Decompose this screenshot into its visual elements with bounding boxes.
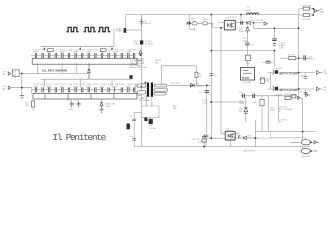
wire: control mid rail <box>211 51 274 67</box>
label R8 <box>191 19 195 23</box>
wire: aux hook <box>190 23 195 30</box>
label U2 <box>227 17 238 19</box>
wire: drop from top rail to C12 <box>240 15 242 21</box>
pulse train group 3 <box>98 27 110 31</box>
resistor R13 vertical <box>260 78 270 83</box>
diode D3 bias <box>149 118 157 130</box>
secondary winding capsule 3 <box>154 92 166 95</box>
bus bar row 1 <box>32 58 137 64</box>
fork to R25/C16 <box>299 9 313 15</box>
wire: aux link <box>190 23 225 28</box>
connector out arrow lower <box>314 141 319 151</box>
label R6 <box>155 60 163 64</box>
junction feedback rail <box>211 101 213 103</box>
capacitor bank row 2 <box>35 87 135 92</box>
varistor RV1 on V2 <box>134 40 154 45</box>
wire: Q2 row <box>268 88 315 90</box>
svg-text:C 2n2: C 2n2 <box>40 49 46 51</box>
resistor R14 sense <box>288 55 296 60</box>
svg-text:2W: 2W <box>155 62 158 64</box>
wire: dashed link right <box>250 132 271 139</box>
svg-text:C 2n2: C 2n2 <box>106 49 112 51</box>
connector aux2 arrow <box>298 96 301 99</box>
fusible resistor R8 oval <box>192 22 197 25</box>
wire: tick right of J3 <box>127 29 130 31</box>
wire: J1 feed <box>19 73 88 75</box>
wire: drop from top rail <box>189 15 191 24</box>
diode D10 <box>187 22 190 25</box>
fuse F1 box <box>13 70 20 77</box>
label R17 <box>281 42 286 46</box>
svg-text:24V: 24V <box>320 12 324 14</box>
svg-text:C 2n2: C 2n2 <box>53 84 59 86</box>
resistor R21 <box>284 94 292 99</box>
wire: U4 bottom pin <box>230 140 232 147</box>
fusible resistor R9 oval <box>202 22 207 25</box>
label C6 voltage <box>203 100 207 104</box>
wire: drops row1 to input rail <box>38 63 77 73</box>
resistor R4 below row2 <box>26 99 35 111</box>
svg-text:100V: 100V <box>60 86 65 88</box>
label R16 <box>239 101 244 105</box>
capacitor C19 sense <box>304 55 315 61</box>
svg-text:100V: 100V <box>100 86 105 88</box>
wire: feedback cross rail <box>211 101 246 103</box>
svg-text:1kV: 1kV <box>203 103 207 105</box>
wire: link ticks 2 <box>96 29 98 31</box>
junction dots upper bus <box>44 48 113 49</box>
capacitor C6 on rectifier leg <box>198 91 209 94</box>
connector P1 blob <box>127 124 132 130</box>
resistor R25 <box>302 5 311 10</box>
svg-text:C 2n2: C 2n2 <box>119 49 125 51</box>
svg-text:1M: 1M <box>26 105 29 107</box>
electrolytic C25 oval <box>301 148 311 158</box>
svg-text:100V: 100V <box>73 52 78 54</box>
arrow marker above U1 text <box>139 51 142 55</box>
wire: row1 rect to V2 <box>137 60 141 62</box>
svg-text:Q1 R18: Q1 R18 <box>275 68 283 70</box>
capacitor C10 out <box>239 92 244 98</box>
connector aux arrow <box>306 93 311 96</box>
diode D12 <box>243 135 260 139</box>
labels row 2 <box>33 84 137 88</box>
output rail 1 <box>255 131 316 133</box>
capacitor C5 on bus A <box>209 74 217 78</box>
opto U4 <box>225 131 235 140</box>
wire: row 1 top bus <box>31 54 136 56</box>
svg-text:100V: 100V <box>47 86 52 88</box>
junction bus A end <box>211 137 213 139</box>
svg-text:100V: 100V <box>73 86 78 88</box>
svg-text:Y1 250V: Y1 250V <box>145 43 154 45</box>
junction dots aux rail <box>220 27 222 29</box>
capacitor C10 pair <box>262 61 273 63</box>
zener VR2 <box>243 25 250 43</box>
wire: Q1 row <box>268 72 315 74</box>
label J3 PULSE <box>116 27 124 32</box>
wire: V1 drop from rail to pulse input <box>126 15 142 34</box>
capacitor C11 on ground rail <box>192 134 207 147</box>
resistor R12 <box>245 55 250 65</box>
capacitor C1 <box>140 19 152 27</box>
capacitor C16 <box>302 14 312 21</box>
diode D2 drop <box>88 63 91 79</box>
wire: drop to ground <box>21 88 23 96</box>
connector J3 blob <box>124 28 126 33</box>
svg-text:100V: 100V <box>47 52 52 54</box>
wire: row1 upper feed bus <box>41 30 114 49</box>
svg-text:R21 10: R21 10 <box>284 94 292 96</box>
wire: dashed lead to connector J3 <box>111 29 116 31</box>
label J1 <box>3 71 8 75</box>
svg-text:C 2n2: C 2n2 <box>40 84 46 86</box>
capacitor Cgs1 <box>304 73 308 79</box>
svg-text:LL4148: LL4148 <box>149 128 157 130</box>
wire: secondary top rail <box>168 84 190 86</box>
wire: J1 to J2 link <box>21 74 23 88</box>
svg-text:R9 10: R9 10 <box>203 19 209 21</box>
svg-text:C 2n2: C 2n2 <box>67 84 73 86</box>
junction top rail <box>240 14 242 16</box>
resistor R2 row1 <box>48 49 54 52</box>
svg-text:24V: 24V <box>324 73 328 75</box>
resistor R19 <box>275 94 296 98</box>
capacitor bank row 1 <box>35 53 135 58</box>
connector J1 plug <box>8 72 11 75</box>
svg-text:100V: 100V <box>86 86 91 88</box>
wire: top primary rail <box>126 14 299 16</box>
svg-text:C 2n2: C 2n2 <box>93 84 99 86</box>
wire: mid return rail <box>41 79 130 87</box>
wire: opto row <box>206 133 239 138</box>
capacitor C13 <box>272 28 284 49</box>
svg-text:C16 100n: C16 100n <box>302 18 312 20</box>
svg-text:275V: 275V <box>134 43 139 45</box>
wire: secondary vertical <box>194 85 211 134</box>
label T1 <box>139 98 152 102</box>
text block lower right <box>278 107 292 114</box>
vertical feedback bus A <box>210 15 212 139</box>
junction dots elcaps <box>310 142 312 144</box>
capacitor C23 <box>238 135 242 139</box>
svg-text:C11 2n2: C11 2n2 <box>192 139 201 141</box>
pulse train group 1 <box>66 27 78 31</box>
primary winding capsule upper <box>137 84 146 87</box>
svg-text:100n X2: 100n X2 <box>143 23 152 25</box>
svg-text:C25 470u: C25 470u <box>301 156 311 158</box>
label R10 <box>173 106 178 110</box>
transformer T1 <box>145 82 153 97</box>
svg-text:GND RTN 0V: GND RTN 0V <box>243 150 256 152</box>
label U4 <box>226 128 233 132</box>
IC U3 TL431 <box>241 67 255 84</box>
connector 0V OUT <box>300 86 327 94</box>
connector +V top arrow <box>314 9 319 12</box>
svg-text:100V: 100V <box>100 52 105 54</box>
output rail 2 <box>270 137 303 139</box>
svg-text:C 2n2: C 2n2 <box>80 49 86 51</box>
inductor L2 on top rail <box>245 7 259 14</box>
svg-text:R25 6.8M: R25 6.8M <box>302 5 311 7</box>
svg-text:35V: 35V <box>278 122 282 124</box>
junction right bus Q2 <box>298 88 300 90</box>
svg-text:D15 LL4148: D15 LL4148 <box>252 20 264 22</box>
current sense row <box>280 57 310 59</box>
wire: lower right vertical <box>277 95 279 121</box>
resistor R7 <box>195 72 203 78</box>
svg-text:600V: 600V <box>106 106 111 108</box>
diode D4 with ground <box>99 99 115 112</box>
bus bar row 2 <box>33 94 137 100</box>
resistor R20 <box>253 99 264 106</box>
wire: lower mid verticals <box>246 96 268 132</box>
text block U1 notes <box>130 58 148 69</box>
wire: J2 feed <box>11 88 32 94</box>
svg-text:AC: AC <box>3 87 6 90</box>
label C21b <box>278 119 288 123</box>
svg-text:LL4148 C12: LL4148 C12 <box>248 138 260 140</box>
capacitor C22 polarized <box>198 133 209 146</box>
wire: V bus right lower <box>254 120 256 147</box>
svg-text:NDT F1T7C0PF: NDT F1T7C0PF <box>280 71 299 75</box>
secondary winding capsule 1 <box>154 84 167 87</box>
capacitor C17 <box>245 43 255 46</box>
svg-text:C 2n2: C 2n2 <box>106 84 112 86</box>
junction control rail <box>211 50 213 52</box>
svg-text:C22 10u: C22 10u <box>198 142 207 144</box>
test point arrow TP1 <box>264 22 267 25</box>
label J2 <box>3 86 8 90</box>
MOSFET Q1 <box>273 69 298 75</box>
svg-text:C9 1n 1kV: C9 1n 1kV <box>170 83 180 85</box>
secondary winding capsule 2 <box>154 89 168 92</box>
svg-text:100V: 100V <box>113 52 118 54</box>
capacitor C15 <box>235 21 247 33</box>
svg-text:100R: 100R <box>270 110 275 112</box>
long right bus <box>298 15 300 100</box>
svg-text:PC817: PC817 <box>231 17 238 19</box>
primary winding capsule lower <box>137 91 146 94</box>
wire: post-filter rail <box>241 95 297 97</box>
svg-text:AC: AC <box>3 73 6 76</box>
wire: transformer primary pins <box>141 83 147 106</box>
svg-text:U3 TL431: U3 TL431 <box>242 82 252 84</box>
capacitor C7 bias <box>130 113 136 147</box>
zener VR3 <box>238 108 247 114</box>
wire: U3 supply <box>246 34 248 66</box>
svg-text:100V: 100V <box>86 52 91 54</box>
svg-text:ALL 2N7S 2N63-NW: ALL 2N7S 2N63-NW <box>42 69 68 73</box>
svg-text:C 2n2: C 2n2 <box>80 84 86 86</box>
svg-text:NDT F1T7C0PF: NDT F1T7C0PF <box>280 88 299 92</box>
svg-text:LINE IN: LINE IN <box>116 31 124 33</box>
diode D15 <box>247 20 264 24</box>
diode D1 <box>190 83 203 87</box>
svg-text:EPCOS N87: EPCOS N87 <box>139 100 152 102</box>
svg-text:BA159: BA159 <box>196 85 203 88</box>
svg-text:100V: 100V <box>33 86 38 88</box>
svg-text:TL431: TL431 <box>242 76 250 80</box>
label R22 <box>270 107 275 111</box>
svg-text:Clamp: RCD 150V: Clamp: RCD 150V <box>130 67 148 69</box>
clamp loop wire <box>161 66 196 86</box>
wire: bias loop <box>141 97 159 118</box>
svg-text:100V: 100V <box>60 52 65 54</box>
svg-text:Il Penitente: Il Penitente <box>53 132 107 143</box>
connector J2 plug <box>8 86 11 89</box>
label R9 <box>203 19 209 21</box>
svg-text:C 2n2: C 2n2 <box>67 49 73 51</box>
opto U2 <box>224 20 235 30</box>
svg-text:1n 1kV: 1n 1kV <box>308 59 315 61</box>
wire: left bias vertical join <box>134 112 141 114</box>
svg-text:100V: 100V <box>126 52 131 54</box>
wire: elcap junctions <box>290 98 314 151</box>
capacitor Cgs2 <box>304 89 308 95</box>
MOSFET Q2 <box>273 86 298 92</box>
wire: link ticks 1 <box>80 29 83 31</box>
junction dot J1 <box>21 73 23 75</box>
labels row 1 <box>33 49 137 53</box>
svg-text:C 2n2: C 2n2 <box>53 49 59 51</box>
svg-text:3.3mH: 3.3mH <box>245 10 252 12</box>
wire: V2 main primary vertical <box>140 15 142 147</box>
junction right bus Q1 <box>298 72 300 74</box>
junction J2 <box>21 87 23 89</box>
svg-text:C 2n2: C 2n2 <box>119 84 125 86</box>
electrolytic C24 oval <box>301 138 310 145</box>
vertical feedback bus B <box>218 23 224 134</box>
wire: bottom ground rail <box>134 146 309 148</box>
svg-text:C 2n2: C 2n2 <box>131 49 137 51</box>
junction on bias rail <box>274 28 276 30</box>
svg-text:100V: 100V <box>126 86 131 88</box>
wire: row 2 top bus <box>32 89 136 91</box>
wire: gate feed column <box>259 73 271 90</box>
wire: M blob stub <box>130 78 132 81</box>
ground PE <box>20 96 25 99</box>
capacitor C14 pair <box>68 99 81 111</box>
svg-text:100V: 100V <box>33 52 38 54</box>
wire: row2 rect to V2 <box>137 94 141 96</box>
svg-text:100V: 100V <box>113 86 118 88</box>
pulse train group 2 <box>84 27 96 31</box>
resistor R3 row1 <box>100 49 106 52</box>
svg-text:PC817: PC817 <box>226 130 233 132</box>
wire: winding link <box>135 86 137 93</box>
svg-text:C 2n2: C 2n2 <box>93 49 99 51</box>
connector M blob <box>129 75 132 79</box>
junction blob bias <box>144 117 147 121</box>
connector +V OUT <box>300 70 328 78</box>
capacitor C20 out <box>251 92 255 98</box>
wire: bias rail right <box>254 23 299 29</box>
svg-text:R14 0.1: R14 0.1 <box>288 55 296 57</box>
